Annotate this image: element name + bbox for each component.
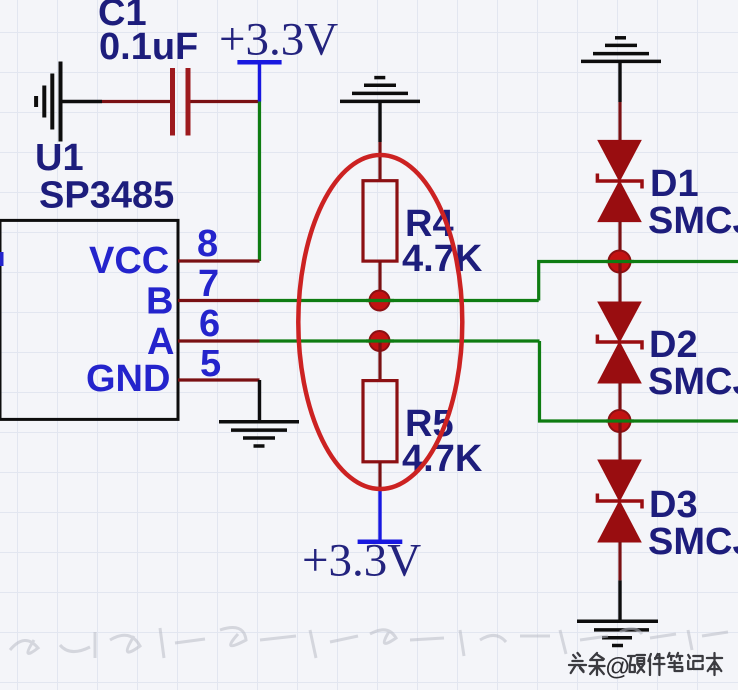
wire C1 right plate to +3.3V node xyxy=(191,100,260,103)
svg-text:8: 8 xyxy=(197,223,218,265)
wire overdraw on node D2/D3 xyxy=(606,419,634,422)
wire B up-right segment xyxy=(539,262,738,301)
junction node D2/D3 xyxy=(609,410,631,432)
svg-text:D3: D3 xyxy=(649,484,698,526)
svg-text:U1: U1 xyxy=(35,137,84,179)
power +3.3V top xyxy=(237,62,281,101)
TVS diode D3 xyxy=(597,460,642,542)
power +3.3V bottom xyxy=(358,490,403,542)
wire D2 to node xyxy=(618,383,621,421)
wire node to D3 xyxy=(618,421,621,460)
capacitor C1 xyxy=(173,68,189,136)
faint watermark xyxy=(10,628,728,658)
svg-text:0.1uF: 0.1uF xyxy=(99,26,198,68)
wire to D1 top (dark red) xyxy=(618,102,621,140)
wire D1 to node xyxy=(618,222,621,262)
wire node to pin 8 (green vertical) xyxy=(258,102,261,262)
svg-text:6: 6 xyxy=(199,303,220,345)
wire node to D2 xyxy=(618,262,621,303)
svg-text:@: @ xyxy=(605,653,630,681)
wire D3 down (dark red) xyxy=(618,542,621,580)
svg-text:B: B xyxy=(146,281,173,323)
wire R4 bottom to node xyxy=(378,261,381,300)
resistor R5 xyxy=(363,381,397,462)
ground G4 above D1 (inverted earth) xyxy=(581,38,661,62)
svg-text:SMCJ: SMCJ xyxy=(648,521,738,563)
wire net A (green horizontal from pin6) xyxy=(260,339,540,342)
wire ground to D1 (black) xyxy=(618,61,621,102)
svg-text:A: A xyxy=(147,321,174,363)
wire ground to R4 (black) xyxy=(378,101,381,142)
svg-text:D1: D1 xyxy=(650,163,699,205)
TVS diode D2 xyxy=(597,302,642,383)
watermark credit 头条 @硬件笔记本 xyxy=(569,653,722,675)
resistor R4 xyxy=(363,181,397,261)
pin 5 stub xyxy=(178,378,260,381)
ground G2 below pin 5 xyxy=(219,422,299,446)
TVS diode D1 xyxy=(597,140,642,221)
svg-text:SP3485: SP3485 xyxy=(39,175,174,217)
wire to R4 top (dark red) xyxy=(378,142,381,181)
ground G3 above R4 (inverted earth) xyxy=(340,78,420,102)
wire overdraw on node R5/A xyxy=(366,339,394,342)
op-amp U1 SP3485 IC body xyxy=(0,220,178,419)
pin 8 stub xyxy=(178,259,260,262)
wire to ground (black) xyxy=(618,580,621,621)
svg-text:+3.3V: +3.3V xyxy=(219,14,338,66)
wire pin5 down to ground xyxy=(258,380,261,422)
wire R5 bottom (dark red) xyxy=(378,462,381,490)
ground G5 below D3 xyxy=(577,621,658,645)
svg-text:SMCJ: SMCJ xyxy=(648,361,738,403)
wire net B (green horizontal from pin7) xyxy=(260,299,539,302)
wire overdraw on node D1/D2 xyxy=(606,260,634,263)
wire node to R5 top xyxy=(378,341,381,381)
junction node R5/A xyxy=(370,331,390,351)
wire to C1 left plate xyxy=(102,100,170,103)
wire overdraw on node R4/B xyxy=(366,299,394,302)
svg-text:+3.3V: +3.3V xyxy=(302,535,421,587)
pin fragment left edge xyxy=(0,252,4,266)
svg-text:VCC: VCC xyxy=(89,240,169,282)
pin 6 stub xyxy=(178,339,260,342)
pin 7 stub xyxy=(178,299,260,302)
svg-text:4.7K: 4.7K xyxy=(402,238,483,280)
junction node D1/D2 xyxy=(609,251,631,273)
junction node R4/B xyxy=(370,291,390,311)
ground G1 left of C1 (rotated earth) xyxy=(36,62,60,142)
svg-text:D2: D2 xyxy=(649,324,698,366)
svg-text:GND: GND xyxy=(86,358,170,400)
highlight ellipse xyxy=(298,155,462,489)
wire ground stub to C1 (black part) xyxy=(61,100,103,103)
wire A down-right segment xyxy=(540,341,738,421)
svg-text:7: 7 xyxy=(198,263,219,305)
svg-text:SMCJ: SMCJ xyxy=(648,200,738,242)
